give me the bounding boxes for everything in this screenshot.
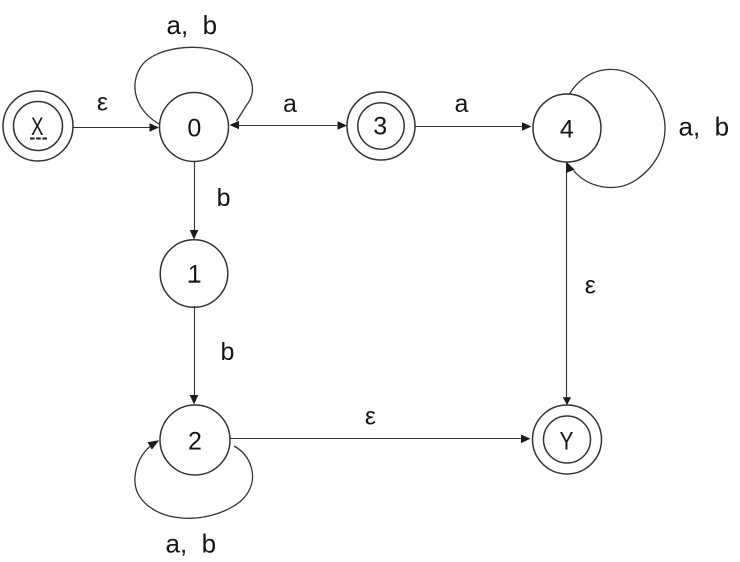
arrowhead into 4 bottom (from Y, shared with self-loop) [566,162,575,173]
state 0 [160,93,229,162]
state 3 (double circle) [347,92,415,160]
dashed underline under X [30,138,47,140]
self-loop on state 0 [135,47,253,124]
wire 4-Y (double headed) [566,163,568,398]
svg-text:1: 1 [188,261,202,289]
arrowhead into 2 from 1 [190,395,199,405]
svg-text:ε: ε [97,89,108,117]
svg-text:a: a [455,90,469,118]
svg-text:a, b: a, b [166,529,217,559]
wire 3->4 [415,126,522,128]
arrowhead into Y top (from 4) [563,397,571,405]
self-loop on state 2 [135,446,253,518]
svg-text:ε: ε [365,403,376,431]
serif base bar of digit 1 [189,281,200,283]
self-loop on state 4 [570,69,666,187]
arrowhead into 0 (shared: self-loop and 3->0) [230,121,240,130]
svg-text:4: 4 [560,116,574,144]
arrowhead into 0 from X [150,123,160,132]
svg-text:b: b [217,184,231,212]
wire X->0 [73,127,150,129]
svg-text:a: a [283,90,297,118]
svg-text:0: 0 [187,115,201,143]
arrowhead into 1 from 0 [190,230,199,240]
state Y (double circle) [533,405,602,474]
svg-text:b: b [220,338,234,366]
state 4 [533,94,601,162]
arrowhead into Y from 2 [521,435,531,444]
svg-text:a, b: a, b [167,10,218,40]
svg-text:2: 2 [188,428,202,456]
arrowhead into 4 from 3 [522,122,532,131]
state 2 [160,405,230,475]
arrowhead into 3 from 0 [338,121,348,130]
svg-text:3: 3 [373,113,387,141]
wire 2->Y [230,438,521,440]
wire 1->2 [194,306,196,395]
wire 0->1 [194,162,196,231]
svg-text:Y: Y [560,427,574,455]
svg-text:ε: ε [585,272,596,300]
arrowhead of self-loop into 2 [148,440,160,449]
svg-text:a, b: a, b [679,111,730,141]
state 1 [160,240,228,308]
svg-text:X: X [31,113,44,141]
wire 0-3 (double headed) [239,125,337,127]
state X (start, double circle) [3,91,73,161]
